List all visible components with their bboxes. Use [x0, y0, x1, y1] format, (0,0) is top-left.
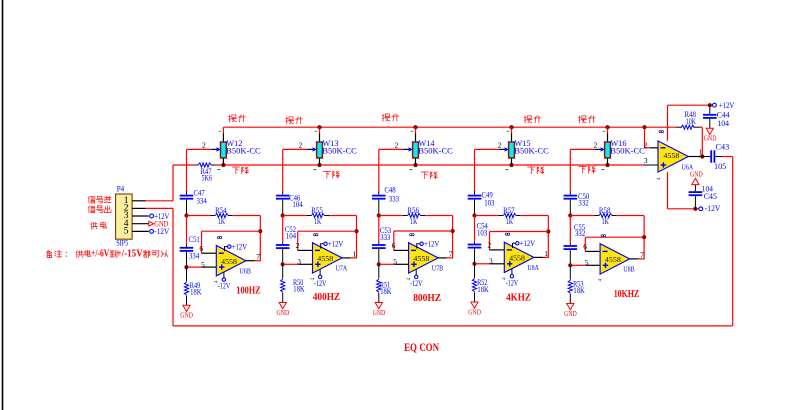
svg-text:104: 104: [292, 200, 302, 209]
svg-text:104: 104: [717, 119, 729, 128]
svg-text:800HZ: 800HZ: [413, 293, 441, 304]
svg-text:103: 103: [477, 229, 487, 238]
svg-text:1: 1: [699, 148, 703, 157]
svg-text:4558: 4558: [509, 255, 525, 263]
svg-text:7: 7: [256, 252, 260, 261]
svg-text:6: 6: [199, 244, 203, 253]
svg-text:2: 2: [299, 141, 303, 150]
svg-text:B50K-CC: B50K-CC: [322, 147, 357, 156]
svg-text:4: 4: [656, 177, 662, 180]
svg-text:6: 6: [583, 242, 587, 251]
svg-text:400HZ: 400HZ: [313, 292, 341, 303]
svg-text:GND: GND: [690, 171, 703, 179]
svg-text:GND: GND: [704, 135, 717, 143]
svg-text:B50K-CC: B50K-CC: [418, 147, 453, 156]
svg-text:U7B: U7B: [432, 264, 444, 273]
svg-text:2: 2: [487, 241, 491, 250]
svg-text:5: 5: [124, 227, 129, 237]
svg-text:U8A: U8A: [527, 263, 539, 272]
svg-text:C45: C45: [704, 192, 717, 201]
svg-text:1: 1: [544, 249, 548, 258]
svg-text:2: 2: [395, 141, 399, 150]
svg-text:EQ CON: EQ CON: [404, 340, 439, 354]
svg-text:2: 2: [296, 241, 300, 250]
svg-text:1K: 1K: [506, 217, 513, 226]
svg-text:GND: GND: [468, 308, 481, 316]
svg-text:1K: 1K: [602, 217, 609, 226]
svg-text:GND: GND: [180, 312, 193, 320]
svg-text:5: 5: [201, 260, 205, 269]
svg-text:+12V: +12V: [719, 100, 735, 110]
svg-text:3: 3: [297, 257, 301, 266]
svg-text:+12V: +12V: [328, 239, 344, 249]
svg-text:18K: 18K: [573, 286, 585, 295]
svg-text:10K: 10K: [686, 117, 696, 126]
svg-text:4558: 4558: [413, 255, 429, 263]
svg-text:3: 3: [644, 156, 648, 165]
svg-text:7: 7: [449, 249, 453, 258]
svg-text:+12V: +12V: [232, 241, 248, 251]
svg-text:GND: GND: [564, 310, 577, 318]
svg-text:U6B: U6B: [239, 266, 251, 275]
svg-text:2: 2: [498, 141, 502, 150]
svg-text:P4: P4: [117, 185, 125, 194]
svg-text:1K: 1K: [410, 217, 417, 226]
svg-text:+12V: +12V: [424, 239, 440, 249]
svg-text:1: 1: [353, 249, 357, 258]
svg-text:C43: C43: [716, 143, 730, 152]
svg-text:-12V: -12V: [410, 278, 423, 288]
svg-text:5: 5: [393, 257, 397, 266]
svg-text:-12V: -12V: [705, 203, 721, 213]
svg-text:B50K-CC: B50K-CC: [610, 147, 645, 156]
svg-text:-12V: -12V: [506, 277, 519, 287]
svg-text:4558: 4558: [605, 256, 621, 264]
svg-text:+12V: +12V: [520, 238, 536, 248]
svg-text:R58: R58: [599, 206, 611, 215]
svg-text:B50K-CC: B50K-CC: [226, 147, 261, 156]
svg-text:332: 332: [578, 199, 588, 208]
svg-text:18K: 18K: [380, 287, 392, 296]
svg-text:R55: R55: [311, 206, 323, 215]
svg-text:104: 104: [286, 232, 296, 241]
svg-text:U7A: U7A: [336, 264, 348, 273]
svg-text:2: 2: [202, 141, 206, 150]
svg-text:333: 333: [380, 233, 390, 242]
svg-text:334: 334: [197, 196, 207, 205]
svg-text:334: 334: [189, 251, 199, 260]
svg-text:R54: R54: [215, 206, 227, 215]
svg-text:2: 2: [594, 141, 598, 150]
svg-text:3: 3: [489, 257, 493, 266]
svg-text:+/-6V: +/-6V: [91, 248, 110, 259]
svg-text:C51: C51: [189, 235, 200, 244]
svg-text:4558: 4558: [663, 152, 679, 160]
svg-text:2: 2: [644, 141, 648, 150]
svg-text:-12V: -12V: [154, 226, 170, 236]
svg-text:4558: 4558: [317, 255, 333, 263]
svg-text:1K: 1K: [218, 217, 225, 226]
svg-text:5: 5: [585, 258, 589, 267]
svg-text:R57: R57: [503, 206, 514, 215]
svg-text:-12V: -12V: [218, 281, 231, 291]
svg-text:U8B: U8B: [623, 265, 635, 274]
svg-text:103: 103: [484, 199, 494, 208]
svg-text:4: 4: [597, 278, 603, 281]
svg-text:7: 7: [640, 250, 644, 259]
svg-text:4558: 4558: [221, 258, 237, 266]
svg-text:6: 6: [392, 241, 396, 250]
svg-text:10KHZ: 10KHZ: [614, 289, 640, 300]
svg-text:-12V: -12V: [314, 278, 327, 288]
svg-text:18K: 18K: [477, 285, 489, 294]
svg-text:4KHZ: 4KHZ: [506, 292, 531, 303]
svg-text:5K6: 5K6: [202, 173, 213, 182]
svg-text:C44: C44: [717, 110, 730, 119]
svg-text:B50K-CC: B50K-CC: [514, 147, 549, 156]
svg-text:105: 105: [714, 162, 726, 171]
svg-text:C48: C48: [384, 186, 395, 195]
svg-text:+/-15V: +/-15V: [116, 248, 143, 259]
svg-text:18K: 18K: [293, 285, 305, 294]
svg-text:R56: R56: [407, 206, 419, 215]
svg-text:100HZ: 100HZ: [236, 286, 261, 297]
svg-text:1K: 1K: [314, 217, 321, 226]
svg-text:GND: GND: [373, 309, 386, 317]
svg-text:18K: 18K: [190, 287, 202, 296]
svg-text:SIP5: SIP5: [116, 239, 128, 248]
svg-text:GND: GND: [277, 309, 290, 317]
svg-text:332: 332: [575, 229, 585, 238]
svg-text:333: 333: [389, 194, 399, 203]
